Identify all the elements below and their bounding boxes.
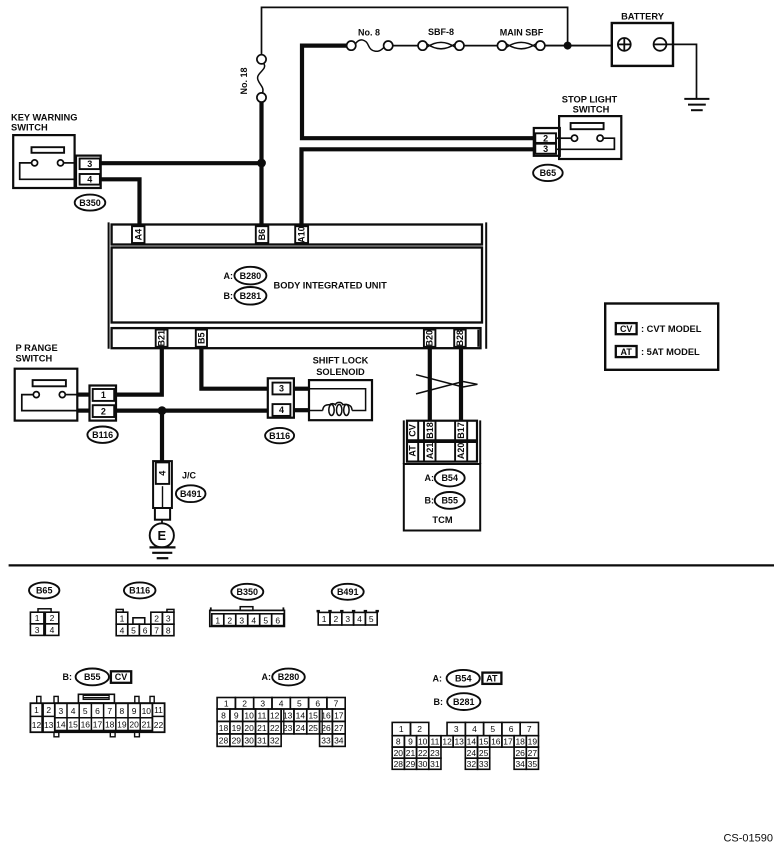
svg-text:6: 6 [275, 615, 280, 625]
connector pinout B54/B281 [392, 722, 538, 769]
P range switch SW3 [15, 369, 78, 421]
connector label B491 [176, 485, 206, 502]
svg-text:B116: B116 [269, 431, 290, 441]
svg-text:5: 5 [263, 615, 268, 625]
svg-text:24: 24 [296, 723, 306, 733]
svg-text:13: 13 [44, 720, 54, 730]
pin B21 [156, 330, 168, 347]
svg-text:3: 3 [35, 625, 40, 635]
svg-text:P RANGE: P RANGE [16, 343, 58, 353]
svg-text:4: 4 [71, 706, 76, 716]
svg-text:8: 8 [221, 710, 226, 720]
svg-text:B18: B18 [425, 422, 435, 439]
junction dot J/C branch [158, 406, 167, 415]
svg-text:5: 5 [369, 614, 374, 624]
svg-text:14: 14 [467, 736, 477, 746]
svg-text:20: 20 [244, 723, 254, 733]
svg-text:2: 2 [334, 614, 339, 624]
svg-text:B281: B281 [240, 291, 262, 301]
svg-text:8: 8 [396, 736, 401, 746]
svg-text:16: 16 [321, 710, 331, 720]
svg-text:B281: B281 [453, 697, 475, 707]
wire: B28 down to TCM (thick) [459, 347, 463, 421]
svg-text:B350: B350 [237, 587, 259, 597]
svg-text:A20: A20 [456, 443, 466, 460]
svg-text:1: 1 [101, 390, 106, 400]
svg-text:15: 15 [308, 710, 318, 720]
fuse MAIN SBF (slow blow, double wave) [497, 41, 545, 50]
svg-text:A4: A4 [133, 229, 143, 241]
svg-text:B280: B280 [278, 672, 300, 682]
svg-text:6: 6 [315, 698, 320, 708]
svg-text:B6: B6 [257, 229, 267, 241]
svg-text:B21: B21 [157, 330, 167, 347]
connector label B350 [75, 195, 106, 211]
svg-text:J/C: J/C [182, 471, 197, 481]
wire: P range pin 2 right to shift lock pin 4 (thick) [116, 409, 268, 413]
svg-text:SBF-8: SBF-8 [428, 27, 454, 37]
svg-text:10: 10 [244, 710, 254, 720]
svg-text:12: 12 [32, 720, 42, 730]
svg-text:B28: B28 [455, 330, 465, 347]
svg-text:18: 18 [105, 720, 115, 730]
svg-text:A:: A: [425, 473, 435, 483]
pin A10 [295, 226, 308, 243]
connector pinout B65 [29, 582, 59, 598]
wire: junction down to J/C (thick) [160, 411, 164, 462]
svg-text:16: 16 [81, 720, 91, 730]
svg-text:13: 13 [454, 736, 464, 746]
stop light switch SW1 [557, 116, 621, 159]
svg-text:11: 11 [257, 710, 266, 720]
svg-text:8: 8 [120, 706, 125, 716]
svg-text:1: 1 [215, 615, 220, 625]
junction node on battery wire [564, 42, 572, 50]
connector B65 pins 2/3 at stop light switch [534, 128, 560, 156]
svg-text:2: 2 [417, 724, 422, 734]
svg-text:: CVT MODEL: : CVT MODEL [641, 324, 702, 334]
wire: thick battery bus corner to stop light switch pin 2 [302, 46, 534, 139]
svg-text:5: 5 [490, 724, 495, 734]
shift lock solenoid L1 [294, 380, 372, 420]
svg-text:4: 4 [472, 724, 477, 734]
junction dot at key warning pin3 wire [257, 159, 266, 168]
svg-text:21: 21 [142, 720, 152, 730]
svg-text:30: 30 [244, 736, 254, 746]
svg-text:2: 2 [50, 613, 55, 623]
svg-text:32: 32 [270, 736, 280, 746]
svg-text:22: 22 [154, 720, 164, 730]
svg-text:3: 3 [279, 384, 284, 394]
wire: B5 down and right to shift lock pin 3 (thick) [201, 347, 267, 389]
connector pinout B116 [124, 582, 156, 598]
svg-text:1: 1 [224, 698, 229, 708]
connector label B65 [533, 165, 563, 181]
pin B28 [454, 330, 478, 347]
svg-text:27: 27 [334, 723, 344, 733]
svg-text:B116: B116 [129, 586, 150, 596]
svg-text:1: 1 [34, 705, 39, 715]
svg-text:1: 1 [35, 613, 40, 623]
svg-text:SWITCH: SWITCH [16, 354, 53, 364]
wire MAIN SBF to battery [545, 45, 612, 47]
svg-text:10: 10 [418, 736, 428, 746]
svg-text:17: 17 [93, 720, 103, 730]
pin A4 [132, 226, 145, 243]
svg-text:2: 2 [543, 133, 548, 143]
svg-text:7: 7 [527, 724, 532, 734]
svg-text:BODY INTEGRATED UNIT: BODY INTEGRATED UNIT [274, 280, 388, 290]
svg-text:B55: B55 [84, 672, 101, 682]
svg-text:22: 22 [418, 748, 428, 758]
wire: top thin loop from No.18 fuse to battery junction [262, 7, 568, 55]
svg-text:1: 1 [399, 724, 404, 734]
svg-text:B54: B54 [455, 674, 472, 684]
svg-text:B:: B: [63, 672, 73, 682]
svg-text:3: 3 [454, 724, 459, 734]
svg-text:4: 4 [50, 625, 55, 635]
svg-text:9: 9 [408, 736, 413, 746]
svg-text:4: 4 [120, 626, 125, 636]
svg-text:B65: B65 [540, 168, 557, 178]
svg-text:2: 2 [46, 705, 51, 715]
svg-text:5: 5 [131, 626, 136, 636]
wire: key warning pin 4 to A4 (thick) [100, 179, 140, 224]
wire: key warning pin 3 to junction (thick) [100, 161, 264, 165]
pin B6 [256, 226, 268, 243]
svg-text:2: 2 [101, 406, 106, 416]
svg-text:5: 5 [83, 706, 88, 716]
svg-text:SHIFT LOCK: SHIFT LOCK [313, 356, 369, 366]
svg-text:12: 12 [442, 736, 452, 746]
connector B116 pins 1/2 at P range switch [77, 386, 116, 421]
body integrated unit U1 [109, 222, 487, 348]
svg-text:19: 19 [117, 720, 127, 730]
svg-text:B491: B491 [337, 587, 359, 597]
svg-text:28: 28 [394, 759, 404, 769]
svg-text:SOLENOID: SOLENOID [316, 367, 365, 377]
connector label B116 (left) [87, 427, 117, 443]
svg-text:SWITCH: SWITCH [11, 123, 48, 133]
svg-text:4: 4 [251, 615, 256, 625]
svg-text:CV: CV [115, 672, 128, 682]
svg-text:9: 9 [234, 710, 239, 720]
svg-text:B:: B: [434, 697, 444, 707]
connector B350 pins 3/4 at key warning switch [76, 156, 101, 188]
svg-text:A:: A: [433, 674, 443, 684]
svg-text:A:: A: [224, 271, 234, 281]
svg-text:18: 18 [515, 736, 525, 746]
svg-text:2: 2 [242, 698, 247, 708]
svg-text:4: 4 [357, 614, 362, 624]
svg-text:17: 17 [334, 710, 344, 720]
ground (battery) [684, 99, 709, 110]
svg-text:A:: A: [262, 672, 272, 682]
key warning switch SW2 [13, 135, 76, 188]
svg-text:B280: B280 [240, 271, 262, 281]
svg-text:23: 23 [283, 723, 293, 733]
connector pinout B491 [332, 584, 364, 600]
svg-text:3: 3 [166, 614, 171, 624]
svg-text:AT: AT [621, 347, 633, 357]
svg-text:AT: AT [486, 673, 498, 683]
svg-text:19: 19 [232, 723, 242, 733]
svg-text:SWITCH: SWITCH [573, 105, 610, 115]
svg-text:16: 16 [491, 736, 501, 746]
svg-text:17: 17 [503, 736, 513, 746]
svg-text:E: E [157, 528, 166, 543]
svg-text:B17: B17 [456, 422, 466, 439]
svg-text:35: 35 [528, 759, 538, 769]
svg-text:1: 1 [120, 614, 125, 624]
svg-text:12: 12 [270, 710, 280, 720]
battery B1 [612, 23, 673, 66]
svg-text:26: 26 [515, 748, 525, 758]
svg-text:3: 3 [543, 144, 548, 154]
svg-text:24: 24 [467, 748, 477, 758]
svg-text:32: 32 [467, 759, 477, 769]
svg-text:3: 3 [345, 614, 350, 624]
svg-text:34: 34 [515, 759, 525, 769]
fuse SBF-8 (slow blow, double wave) [418, 41, 464, 50]
svg-text:4: 4 [87, 175, 92, 185]
svg-text:B65: B65 [36, 586, 53, 596]
svg-text:21: 21 [257, 723, 267, 733]
wire: No.18 fuse down to B6 (thick) [259, 102, 263, 225]
svg-text:3: 3 [239, 615, 244, 625]
svg-text:6: 6 [143, 626, 148, 636]
svg-text:B116: B116 [92, 430, 113, 440]
svg-text:B350: B350 [79, 198, 101, 208]
TCM connector table [404, 420, 480, 464]
svg-text:MAIN SBF: MAIN SBF [500, 28, 544, 38]
svg-text:B54: B54 [441, 473, 458, 483]
svg-text:2: 2 [154, 614, 159, 624]
svg-text:: 5AT MODEL: : 5AT MODEL [641, 347, 700, 357]
svg-text:CV: CV [408, 424, 418, 437]
legend box CV/AT [605, 304, 718, 370]
svg-text:15: 15 [68, 720, 78, 730]
svg-text:14: 14 [296, 710, 306, 720]
fuse No. 18 [257, 55, 266, 102]
svg-text:6: 6 [509, 724, 514, 734]
svg-text:4: 4 [279, 698, 284, 708]
svg-text:10: 10 [142, 706, 152, 716]
svg-text:30: 30 [418, 759, 428, 769]
wire: stop light pin3 left and down to A10 [302, 149, 534, 224]
svg-text:1: 1 [322, 614, 327, 624]
connector B116 pins 3/4 at shift lock solenoid [268, 378, 294, 417]
wire: B20 down to TCM (thick) [428, 347, 432, 421]
connector pinout B350 [231, 584, 263, 600]
horizontal separator [9, 564, 774, 566]
svg-text:25: 25 [479, 748, 489, 758]
svg-text:25: 25 [308, 723, 318, 733]
svg-text:STOP LIGHT: STOP LIGHT [562, 94, 618, 104]
twisted pair marker [416, 375, 478, 394]
svg-text:22: 22 [270, 723, 280, 733]
svg-text:TCM: TCM [432, 515, 452, 525]
unit name labels A:B280 B:B281 [234, 267, 266, 305]
svg-text:A21: A21 [425, 443, 435, 460]
svg-text:B5: B5 [196, 332, 206, 344]
svg-text:CV: CV [620, 324, 633, 334]
svg-text:33: 33 [321, 736, 331, 746]
svg-text:31: 31 [430, 759, 440, 769]
svg-text:6: 6 [95, 706, 100, 716]
svg-text:31: 31 [257, 736, 267, 746]
svg-text:B:: B: [425, 496, 435, 506]
svg-text:B:: B: [224, 291, 234, 301]
wire battery negative to ground [667, 44, 697, 98]
svg-text:9: 9 [132, 706, 137, 716]
svg-text:7: 7 [334, 698, 339, 708]
connector label B116 (right) [265, 428, 294, 443]
junction connector J/C B491 [153, 461, 172, 520]
svg-text:4: 4 [279, 405, 284, 415]
svg-text:34: 34 [334, 736, 344, 746]
svg-text:3: 3 [260, 698, 265, 708]
svg-text:2: 2 [227, 615, 232, 625]
svg-text:20: 20 [129, 720, 139, 730]
svg-text:7: 7 [107, 706, 112, 716]
svg-text:27: 27 [528, 748, 538, 758]
svg-text:20: 20 [394, 748, 404, 758]
svg-text:15: 15 [479, 736, 489, 746]
svg-text:11: 11 [154, 705, 163, 715]
svg-text:3: 3 [59, 706, 64, 716]
svg-text:B491: B491 [180, 489, 202, 499]
svg-text:28: 28 [219, 736, 229, 746]
pin B5 [196, 330, 207, 347]
svg-text:AT: AT [408, 445, 418, 457]
svg-text:13: 13 [283, 710, 293, 720]
svg-text:KEY WARNING: KEY WARNING [11, 112, 77, 122]
svg-text:No. 8: No. 8 [358, 28, 380, 38]
svg-text:3: 3 [87, 159, 92, 169]
svg-text:11: 11 [430, 736, 439, 746]
svg-text:A10: A10 [297, 226, 307, 243]
svg-text:4: 4 [157, 471, 167, 476]
svg-text:33: 33 [479, 759, 489, 769]
svg-text:B55: B55 [441, 496, 458, 506]
pin B20 [424, 330, 436, 347]
svg-text:14: 14 [56, 720, 66, 730]
svg-text:7: 7 [154, 626, 159, 636]
wire: B21 down and to P range pin 1 (thick) [116, 347, 162, 395]
svg-text:No. 18: No. 18 [239, 67, 249, 94]
svg-text:23: 23 [430, 748, 440, 758]
svg-text:21: 21 [406, 748, 416, 758]
wire between No.8 and SBF-8 [393, 45, 418, 47]
svg-text:BATTERY: BATTERY [621, 12, 665, 22]
svg-text:CS-01590: CS-01590 [723, 833, 773, 845]
svg-text:19: 19 [528, 736, 538, 746]
ground E (circle) [150, 520, 176, 559]
svg-text:5: 5 [297, 698, 302, 708]
svg-text:B20: B20 [425, 330, 435, 347]
svg-text:18: 18 [219, 723, 229, 733]
svg-text:29: 29 [232, 736, 242, 746]
fuse No. 8 [347, 40, 393, 51]
svg-text:8: 8 [166, 626, 171, 636]
wire between SBF-8 and MAIN SBF [464, 45, 497, 47]
svg-text:26: 26 [321, 723, 331, 733]
TCM unit U2 [404, 464, 480, 531]
svg-text:29: 29 [406, 759, 416, 769]
